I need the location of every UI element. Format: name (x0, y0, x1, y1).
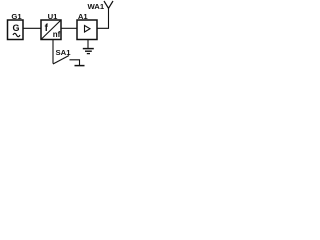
wire U1 to switch (52, 40, 54, 64)
wire A1 to antenna (97, 8, 109, 28)
generator G1 (8, 20, 24, 40)
switch fixed lead (70, 60, 80, 65)
wire U1 to A1 (61, 27, 77, 29)
svg-text:nf: nf (53, 30, 61, 39)
ground under A1 (87, 40, 89, 49)
antenna WA1 (104, 1, 113, 8)
chassis ground bar (75, 65, 85, 67)
svg-text:G: G (12, 23, 19, 33)
switch SA1 blade (53, 56, 69, 65)
wire G1 to U1 (23, 27, 41, 29)
svg-text:WA1: WA1 (87, 2, 104, 11)
multiplier U1 (41, 20, 61, 40)
amplifier A1 (77, 20, 97, 40)
